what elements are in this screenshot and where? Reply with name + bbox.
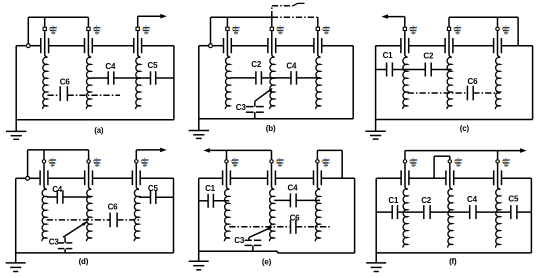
tuned-stage trimmer capacitor CT1a bbox=[41, 31, 49, 57]
wire riser stage3 (f) bbox=[497, 151, 499, 160]
trimmer terminal of CT2d bbox=[87, 160, 90, 163]
trimmer label 2 (f) bbox=[454, 158, 462, 167]
svg-text:(a): (a) bbox=[94, 126, 104, 135]
trimmer terminal of CT3f bbox=[496, 160, 499, 163]
wire top rail (f) bbox=[405, 150, 520, 152]
C3 top lead bbox=[248, 238, 250, 241]
wire C4 to coil3 (b) bbox=[297, 77, 321, 79]
tuned-stage trimmer capacitor CT1b bbox=[224, 31, 232, 57]
inductor coil L2e bbox=[269, 189, 274, 241]
inductor coil L3a bbox=[136, 57, 141, 109]
wire riser stage1 (f) bbox=[404, 151, 406, 160]
wire top rail (c) bbox=[449, 16, 518, 18]
wire bus seg3 (c) bbox=[453, 45, 494, 47]
inductor coil L1f bbox=[403, 189, 408, 248]
wire C4 to coil3 (e) bbox=[296, 199, 320, 201]
wire C5 to right edge (d) bbox=[156, 196, 174, 198]
wire top rail (a) bbox=[28, 16, 88, 18]
coupling dash-dot right (e) bbox=[296, 226, 331, 228]
wire bottom rail right (e) bbox=[278, 252, 355, 254]
wire left edge (d) bbox=[15, 178, 17, 253]
capacitor C4 plates bbox=[108, 71, 114, 84]
wire bus seg3 (f) bbox=[454, 177, 494, 179]
wire bus seg1 (b) bbox=[213, 45, 224, 47]
wire input riser (d) bbox=[27, 150, 29, 176]
input terminal node (a) bbox=[26, 44, 30, 48]
svg-text:C6: C6 bbox=[468, 77, 479, 86]
C3 top lead bbox=[254, 101, 256, 106]
ground (b) bbox=[189, 119, 209, 139]
wire bottom rail (a) bbox=[16, 119, 174, 121]
C3 lead to ground rail bbox=[252, 245, 254, 251]
svg-text:(b): (b) bbox=[266, 124, 276, 133]
wire bus seg1 (f) bbox=[376, 177, 401, 179]
wire bottom rail (f) bbox=[376, 252, 531, 254]
wire riser stage3 (a) bbox=[137, 16, 139, 27]
wire input riser (b) bbox=[210, 17, 212, 43]
variable capacitor C3 plates bbox=[245, 240, 262, 245]
wire bus seg3 (a) bbox=[92, 45, 134, 47]
svg-text:C1: C1 bbox=[383, 51, 394, 60]
C3 arrowhead bbox=[267, 227, 273, 231]
output arrow (d) bbox=[160, 148, 167, 153]
wire left edge to C1 (f) bbox=[376, 211, 392, 213]
wire input left (a) bbox=[16, 45, 26, 47]
trimmer label 1 (d) bbox=[48, 158, 56, 167]
input terminal node (d) bbox=[26, 176, 30, 180]
trimmer terminal of CT3d bbox=[135, 160, 138, 163]
wire left edge (a) bbox=[15, 46, 17, 120]
wire riser stage2 (b) bbox=[271, 17, 273, 26]
wire left edge to C1 (e) bbox=[199, 200, 208, 202]
wire bus seg2 (c) bbox=[409, 45, 445, 47]
inductor coil L1e bbox=[224, 189, 229, 241]
capacitor C1 plates bbox=[387, 63, 393, 77]
tuned-stage trimmer capacitor CT2e bbox=[268, 164, 276, 190]
wire top rail (b) bbox=[211, 16, 272, 18]
variable capacitor C3 plates bbox=[58, 243, 72, 249]
trimmer label 1 (c) bbox=[409, 25, 417, 34]
capacitor C4 plates bbox=[290, 193, 296, 207]
wire bus seg2 (f) bbox=[409, 177, 446, 179]
inductor coil L3e bbox=[315, 189, 320, 241]
wire C5 to right edge (a) bbox=[156, 77, 174, 79]
input terminal node (b) bbox=[209, 44, 213, 48]
wire bus seg1 (a) bbox=[31, 45, 41, 47]
wire stage2 box top (f) bbox=[434, 155, 450, 157]
wire coil2 to C4 (e) bbox=[274, 199, 290, 201]
tuned-stage trimmer capacitor CT3b bbox=[314, 31, 322, 57]
trimmer label 3 (e) bbox=[322, 158, 330, 167]
inductor coil L1a bbox=[43, 57, 48, 109]
wire left edge (f) bbox=[375, 178, 377, 253]
wire bus seg4 (e) bbox=[321, 177, 354, 179]
trimmer label 3 (f) bbox=[502, 158, 510, 167]
coupling dash-dot right (d) bbox=[117, 219, 139, 221]
capacitor C1 plates bbox=[208, 194, 213, 208]
svg-text:(d): (d) bbox=[79, 257, 89, 266]
C3 lead to ground rail bbox=[254, 112, 256, 119]
wire left edge (c) bbox=[375, 46, 377, 120]
svg-text:C6: C6 bbox=[60, 77, 71, 86]
wire riser stage2 (a) bbox=[87, 17, 89, 26]
wire bottom rail step (e) bbox=[277, 251, 279, 253]
coupling dash-dot right (c) bbox=[473, 92, 500, 94]
capacitor C4 plates bbox=[57, 190, 63, 203]
svg-text:C2: C2 bbox=[251, 60, 262, 69]
trimmer label 2 (c) bbox=[453, 25, 461, 34]
svg-text:C5: C5 bbox=[508, 195, 519, 204]
trimmer label 1 (f) bbox=[409, 158, 417, 167]
trimmer label 2 (d) bbox=[93, 158, 101, 167]
tuned-stage trimmer capacitor CT3d bbox=[132, 164, 140, 190]
trimmer label 2 (b) bbox=[276, 25, 284, 34]
svg-text:C4: C4 bbox=[286, 62, 297, 71]
trimmer label 1 (b) bbox=[232, 25, 240, 34]
wire bottom rail (d) bbox=[16, 252, 174, 254]
wire coil1 to C6 dash-dot (a) bbox=[47, 94, 60, 96]
wire bus seg1 (e) bbox=[199, 177, 223, 179]
wire bus seg2 (e) bbox=[230, 177, 267, 179]
wire C2 to coil2 (b) bbox=[261, 77, 274, 79]
wire coil2 to C4 (b) bbox=[275, 77, 292, 79]
inductor coil L1b bbox=[225, 57, 230, 109]
wire C1 to C2 through coil1 (f) bbox=[398, 211, 424, 213]
C3 arrowhead bbox=[82, 222, 87, 226]
svg-text:C3: C3 bbox=[236, 103, 247, 112]
wire riser stage1 (e) bbox=[226, 150, 228, 159]
inductor coil L3d bbox=[134, 189, 139, 241]
trimmer label 3 (c) bbox=[502, 25, 510, 34]
variable capacitor C3 plates bbox=[246, 107, 264, 113]
tuned-stage trimmer capacitor CT1d bbox=[40, 164, 48, 190]
trimmer terminal of CT1c bbox=[403, 27, 406, 30]
wire right edge (b) bbox=[352, 46, 354, 119]
tuned-stage trimmer capacitor CT2b bbox=[268, 31, 276, 57]
tuned-stage trimmer capacitor CT3c bbox=[494, 31, 502, 57]
inductor coil L3c bbox=[495, 57, 500, 109]
wire input left (b) bbox=[199, 45, 208, 47]
svg-text:C4: C4 bbox=[467, 195, 478, 204]
tuned-stage trimmer capacitor CT3e bbox=[314, 164, 322, 190]
C3 adjustment arrow shaft bbox=[249, 227, 272, 237]
C3 top lead bbox=[64, 237, 66, 243]
wire riser stage2 (c) bbox=[448, 17, 450, 26]
wire bus seg4 (f) bbox=[502, 177, 532, 179]
C3 arrowhead bbox=[268, 88, 273, 93]
wire riser stage3 (d) bbox=[135, 150, 137, 159]
wire right edge (f) bbox=[530, 178, 532, 253]
inductor coil L3f bbox=[495, 189, 500, 248]
wire bottom rail left (e) bbox=[199, 250, 278, 252]
trimmer terminal of CT2c bbox=[447, 27, 450, 30]
wire right edge (a) bbox=[173, 46, 175, 120]
inductor coil L2a bbox=[86, 57, 91, 109]
wire riser stage3 (b) bbox=[317, 17, 319, 26]
input arrow (c) bbox=[381, 14, 388, 19]
trimmer label 3 (b) bbox=[322, 25, 330, 34]
input arrow (e) bbox=[203, 148, 210, 153]
coupling dash-dot left (d) bbox=[47, 219, 110, 221]
wire stage2 box riser (f) bbox=[449, 156, 451, 159]
trimmer terminal of CT2e bbox=[270, 160, 273, 163]
capacitor C4 plates bbox=[470, 205, 476, 219]
svg-text:C3: C3 bbox=[49, 238, 60, 247]
trimmer terminal of CT1a bbox=[43, 27, 46, 30]
inductor coil L2c bbox=[447, 57, 452, 109]
inductor coil L2b bbox=[270, 57, 275, 109]
svg-text:(e): (e) bbox=[262, 257, 272, 266]
trimmer terminal of CT1d bbox=[42, 160, 45, 163]
wire bus seg2 (b) bbox=[231, 45, 268, 47]
inductor coil L1d bbox=[42, 189, 47, 241]
wire bottom rail (b) bbox=[199, 118, 353, 120]
tuned-stage trimmer capacitor CT1e bbox=[223, 164, 231, 190]
inductor coil L2f bbox=[448, 189, 453, 248]
svg-text:C6: C6 bbox=[290, 214, 301, 223]
wire bus seg3 (d) bbox=[93, 177, 133, 179]
wire bus seg1 (c) bbox=[376, 45, 401, 47]
svg-text:C4: C4 bbox=[105, 62, 116, 71]
svg-text:C2: C2 bbox=[423, 51, 434, 60]
trimmer label 1 (e) bbox=[231, 158, 239, 167]
capacitor C5 plates bbox=[511, 205, 517, 219]
wire bus seg3 (b) bbox=[276, 45, 314, 47]
capacitor C4 plates bbox=[291, 71, 297, 84]
wire bus seg2 (d) bbox=[48, 177, 85, 179]
wire riser stage2 (e) bbox=[271, 150, 273, 159]
trimmer terminal of CT1e bbox=[225, 160, 228, 163]
C3 lead to ground rail bbox=[64, 249, 66, 253]
inductor coil L2d bbox=[86, 189, 91, 241]
capacitor C2 plates bbox=[425, 63, 431, 77]
wire riser stage2 (d) bbox=[88, 150, 90, 159]
svg-text:C2: C2 bbox=[421, 196, 432, 205]
wire coil2 to C4 (a) bbox=[91, 77, 108, 79]
wire bus seg1 (d) bbox=[30, 177, 40, 179]
wire output line (a) bbox=[138, 15, 161, 17]
wire C4 to coil2 (d) bbox=[63, 196, 91, 198]
tuned-stage trimmer capacitor CT2d bbox=[85, 164, 93, 190]
coupling dash-dot line (a) bbox=[67, 94, 120, 96]
trimmer terminal of CT3e bbox=[316, 160, 319, 163]
tuned-stage trimmer capacitor CT1c bbox=[401, 31, 409, 57]
wire coil1 to C2 (b) bbox=[230, 77, 256, 79]
svg-text:C1: C1 bbox=[388, 196, 399, 205]
wire coil3 to C5 (a) bbox=[140, 77, 150, 79]
trimmer label 3 (d) bbox=[141, 158, 149, 167]
svg-text:C1: C1 bbox=[205, 184, 216, 193]
trimmer label 1 (a) bbox=[49, 25, 57, 34]
wire coil1 to C2 (c) bbox=[408, 69, 426, 71]
svg-text:(c): (c) bbox=[460, 124, 470, 133]
wire coil3 to C5 (d) bbox=[139, 196, 151, 198]
trimmer terminal of CT2a bbox=[87, 27, 90, 30]
trimmer terminal of CT2f bbox=[448, 160, 451, 163]
trimmer terminal of CT3a bbox=[136, 27, 139, 30]
wire C2 to coil2 (c) bbox=[431, 69, 452, 71]
wire stage3 box drop (e) bbox=[341, 150, 343, 178]
wire bus seg4 (c) bbox=[501, 45, 532, 47]
trimmer label 2 (e) bbox=[276, 158, 284, 167]
gang adjustment flag (b) bbox=[293, 3, 305, 5]
wire input left (d) bbox=[16, 177, 26, 179]
wire coil1 to C4 (d) bbox=[47, 196, 58, 198]
wire bus seg4 (d) bbox=[140, 177, 173, 179]
output arrow (a) bbox=[160, 14, 167, 19]
wire C1 to coil1 (e) bbox=[213, 200, 229, 202]
wire riser stage1 (d) bbox=[43, 150, 45, 159]
capacitor C2 plates bbox=[256, 71, 262, 84]
coupling dash-dot left (c) bbox=[408, 92, 468, 94]
wire left edge (e) bbox=[198, 178, 200, 251]
gang dash-dot riser (b) bbox=[271, 6, 273, 17]
svg-text:C4: C4 bbox=[288, 183, 299, 192]
wire top rail (d) bbox=[28, 149, 89, 151]
svg-text:C5: C5 bbox=[148, 61, 159, 70]
trimmer terminal of CT3b bbox=[316, 27, 319, 30]
wire output line (d) bbox=[136, 149, 160, 151]
wire C1 to coil1 (c) bbox=[392, 69, 407, 71]
C3 adjustment arrow shaft bbox=[63, 222, 86, 237]
trimmer terminal of CT3c bbox=[496, 27, 499, 30]
wire riser stage1 (a) bbox=[44, 17, 46, 26]
capacitor C1 plates bbox=[392, 205, 397, 219]
wire left edge to C1 (c) bbox=[376, 69, 387, 71]
wire C5 to right edge (f) bbox=[517, 211, 532, 213]
trimmer label 2 (a) bbox=[93, 25, 101, 34]
capacitor C5 plates bbox=[151, 191, 156, 204]
capacitor C6 plates bbox=[467, 86, 473, 101]
wire bus seg4 (a) bbox=[142, 45, 174, 47]
svg-text:C6: C6 bbox=[108, 203, 119, 212]
wire arrow line (c) bbox=[388, 16, 405, 18]
svg-text:C4: C4 bbox=[52, 185, 63, 194]
trimmer label 3 (a) bbox=[142, 25, 150, 34]
tuned-stage trimmer capacitor CT3f bbox=[494, 164, 502, 190]
wire bus seg2 (a) bbox=[49, 45, 85, 47]
inductor coil L1c bbox=[403, 57, 408, 109]
wire bus seg3 (e) bbox=[275, 177, 313, 179]
gang dash-dot top (b) bbox=[272, 5, 293, 7]
wire right edge (c) bbox=[532, 46, 534, 120]
wire C4 to C5 through coil3 (f) bbox=[476, 211, 511, 213]
ground (e) bbox=[189, 251, 209, 270]
ground (f) bbox=[366, 253, 386, 272]
ground (d) bbox=[6, 253, 26, 272]
output arrow (f) bbox=[520, 148, 527, 153]
capacitor C6 plates bbox=[60, 86, 67, 101]
wire C2 to C4 through coil2 (f) bbox=[430, 211, 470, 213]
trimmer terminal of CT1b bbox=[226, 27, 229, 30]
wire right edge (d) bbox=[173, 178, 175, 253]
trimmer terminal of CT2b bbox=[270, 27, 273, 30]
inductor coil L3b bbox=[316, 57, 321, 109]
coupling dash-dot left (e) bbox=[229, 226, 290, 228]
capacitor C2 plates bbox=[424, 205, 430, 219]
wire input riser (a) bbox=[27, 17, 29, 43]
tuned-stage trimmer capacitor CT3a bbox=[134, 31, 142, 57]
capacitor C5 plates bbox=[151, 71, 156, 84]
wire right edge (e) bbox=[354, 178, 356, 253]
svg-text:C5: C5 bbox=[148, 184, 159, 193]
svg-text:(f): (f) bbox=[449, 257, 457, 266]
capacitor C6 plates bbox=[110, 213, 117, 228]
wire stage3 box top (e) bbox=[317, 149, 342, 151]
wire rail drop (c) bbox=[517, 17, 519, 45]
tuned-stage trimmer capacitor CT2a bbox=[85, 31, 93, 57]
wire riser stage3 (c) bbox=[497, 17, 499, 26]
wire riser stage1 (c) bbox=[404, 17, 406, 27]
wire left edge (b) bbox=[198, 46, 200, 119]
wire top rail (e) bbox=[210, 149, 272, 151]
ground (c) bbox=[365, 120, 385, 140]
svg-text:C3: C3 bbox=[234, 236, 245, 245]
wire riser stage3 (e) bbox=[316, 150, 318, 159]
ground (a) bbox=[6, 120, 26, 140]
tuned-stage trimmer capacitor CT2f bbox=[446, 164, 454, 190]
wire C4 to coil3 (a) bbox=[114, 77, 141, 79]
capacitor C6 plates bbox=[291, 220, 296, 234]
wire stage2 box drop (f) bbox=[433, 156, 435, 178]
tuned-stage trimmer capacitor CT1f bbox=[401, 164, 409, 190]
trimmer terminal of CT1f bbox=[403, 160, 406, 163]
C3 adjustment arrow shaft bbox=[255, 89, 272, 101]
wire bus seg4 (b) bbox=[322, 45, 354, 47]
wire bottom rail (c) bbox=[376, 119, 533, 121]
gang dash-dot rail (b) bbox=[272, 16, 318, 18]
wire riser stage1 (b) bbox=[226, 17, 228, 26]
tuned-stage trimmer capacitor CT2c bbox=[445, 31, 453, 57]
